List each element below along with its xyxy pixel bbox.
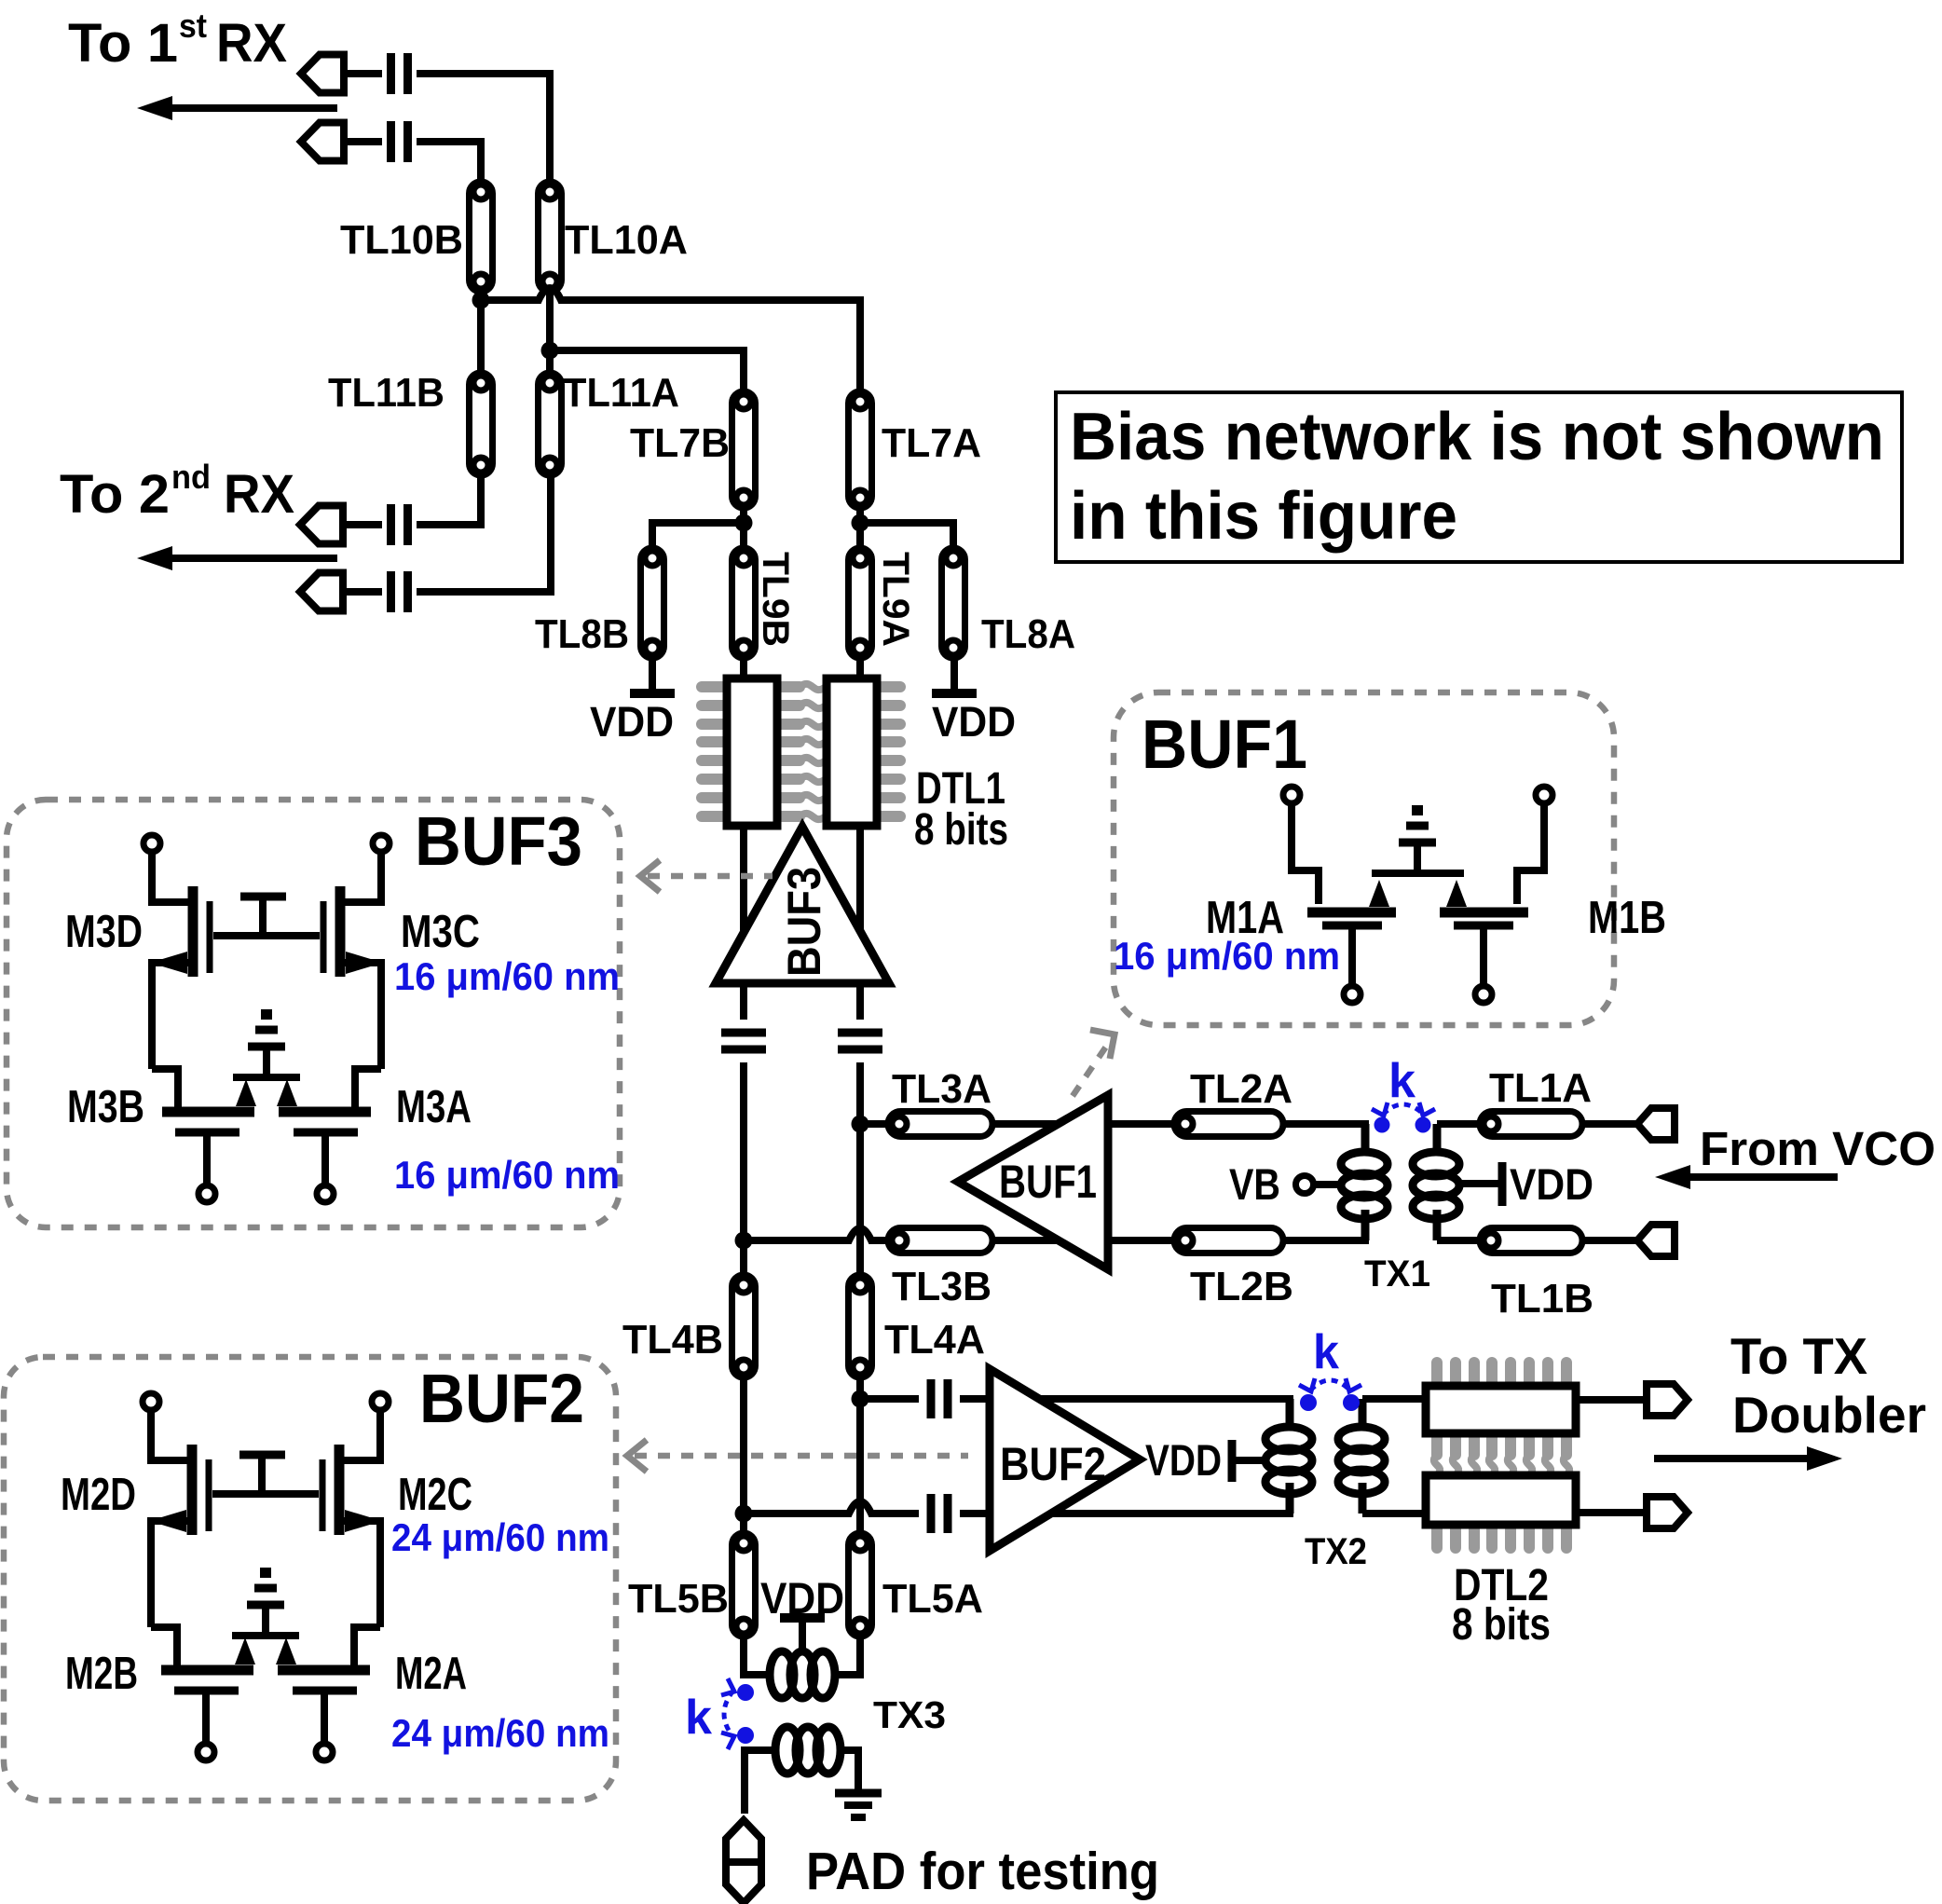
- svg-text:BUF2: BUF2: [1000, 1438, 1106, 1490]
- M1B gate: [1454, 922, 1513, 930]
- transformer TX1 left winding: [1341, 1124, 1388, 1240]
- svg-text:VDD: VDD: [1145, 1435, 1222, 1485]
- wire pad4 to cap4: [343, 588, 382, 596]
- svg-text:TL8B: TL8B: [535, 611, 629, 657]
- M1A bulk arrow: [1369, 880, 1389, 907]
- transistor right: gate: [320, 1459, 326, 1531]
- svg-text:TX1: TX1: [1364, 1253, 1430, 1294]
- transistor M top-left terminal circle: [143, 1393, 159, 1410]
- wire node to TL8A: [860, 523, 953, 548]
- coupling arc TX1: [1372, 1103, 1435, 1116]
- gate bias T symbol: [239, 1455, 285, 1494]
- DTL2 bottom line bar: [1426, 1475, 1576, 1525]
- svg-text:RX: RX: [224, 464, 294, 525]
- dashed pointer arrow BUF2 pointer: [627, 1440, 968, 1472]
- coupling dots TX1: [1374, 1117, 1390, 1133]
- svg-text:TL5B: TL5B: [628, 1576, 729, 1622]
- transistor left: channel: [187, 1445, 198, 1535]
- svg-text:TL2B: TL2B: [1190, 1264, 1293, 1309]
- M1A gate: [1322, 922, 1382, 930]
- transistor right: channel: [335, 1445, 345, 1535]
- wire right column to TL3A node: [856, 1062, 864, 1275]
- label To 1st RX: [68, 7, 287, 74]
- pad 1st RX lower: [301, 123, 344, 161]
- transmission line TL11B: [470, 373, 493, 475]
- wire TL4B bottom to TL5B: [740, 1377, 747, 1533]
- capacitor 2nd RX lower coupling: [391, 571, 408, 612]
- transistor NMOS right channel: [278, 1665, 370, 1676]
- M1B bulk arrow: [1446, 880, 1467, 907]
- bias tap symbol BUF1 pair: [1399, 805, 1436, 873]
- svg-text:TL11B: TL11B: [328, 370, 444, 416]
- wire DTL1 left to BUF3: [740, 826, 747, 937]
- inset box BUF3: [7, 800, 620, 1227]
- svg-text:nd: nd: [171, 458, 211, 496]
- transistor NMOS left channel: [162, 1107, 254, 1117]
- svg-text:To 1: To 1: [68, 13, 178, 74]
- transistor right: gate: [321, 901, 327, 973]
- wire TL10A bottom to junction: [546, 292, 554, 350]
- transistor M top-right terminal circle: [373, 835, 390, 852]
- wire cap2 to TL10B: [417, 142, 481, 183]
- svg-text:VDD: VDD: [1510, 1159, 1593, 1209]
- DTL2 top line bar: [1426, 1386, 1576, 1433]
- arrow to TX doubler: [1654, 1446, 1842, 1471]
- svg-text:PAD for testing: PAD for testing: [806, 1842, 1159, 1901]
- svg-text:BUF3: BUF3: [778, 867, 830, 977]
- wire BUF3 right output: [856, 983, 864, 1020]
- svg-text:TL1A: TL1A: [1489, 1065, 1592, 1111]
- M1B gate stem and terminal: [1480, 929, 1487, 986]
- NMOS right gate stem and terminal: [321, 1136, 329, 1185]
- transistor left: gate: [207, 901, 213, 973]
- wire cap4 to TL11A: [417, 475, 551, 592]
- transmission line TL7B: [732, 391, 756, 508]
- svg-text:M2B: M2B: [65, 1649, 138, 1699]
- NMOS left drain jog: [151, 1627, 177, 1666]
- wire node to lower cap with hop over right column: [744, 1501, 919, 1514]
- NMOS left gate stem and terminal: [202, 1694, 210, 1744]
- transistor NMOS left channel: [161, 1665, 253, 1676]
- label To 2nd RX: [60, 458, 294, 525]
- arrow from VCO: [1655, 1165, 1838, 1189]
- junction BUF2 upper input node: [852, 1390, 869, 1408]
- transmission line TL11A: [539, 373, 562, 475]
- junction BUF2 lower input node: [735, 1505, 753, 1523]
- coupling arc TX3: [721, 1678, 734, 1749]
- pad 2nd RX lower: [300, 573, 343, 611]
- NMOS left bulk arrow: [236, 1079, 256, 1106]
- transmission line TL5B: [732, 1533, 756, 1637]
- capacitor 1st RX lower coupling: [391, 121, 408, 162]
- wire left column to TL3B node: [740, 1062, 747, 1275]
- transmission line TL9B: [732, 548, 756, 658]
- pad 1st RX upper: [301, 55, 344, 93]
- svg-text:Doubler: Doubler: [1732, 1386, 1926, 1444]
- wire TL5B elbow: [744, 1637, 770, 1675]
- svg-text:k: k: [685, 1691, 712, 1745]
- svg-text:TL2A: TL2A: [1190, 1066, 1292, 1112]
- gate bias T symbol: [240, 897, 286, 936]
- svg-text:Bias network is not shown: Bias network is not shown: [1070, 400, 1884, 474]
- wire TX1 to TL1A: [1437, 1120, 1480, 1128]
- wire junction to TL11A: [546, 350, 554, 373]
- wire TL3B to BUF1: [992, 1237, 1061, 1244]
- gate interconnect wire: [213, 932, 320, 939]
- wire BUF1 to TL2A: [1108, 1120, 1174, 1128]
- wire junction to TL7A with hop over TL10A column: [481, 288, 860, 391]
- wire TL2A to TX1: [1283, 1124, 1365, 1155]
- capacitor BUF2 lower coupling: [931, 1494, 948, 1533]
- M1A drain lead: [1292, 803, 1319, 904]
- svg-text:TL4A: TL4A: [884, 1317, 985, 1363]
- junction TL10B-TL11B-TL7A node: [472, 292, 490, 309]
- transistor NMOS right channel: [279, 1107, 371, 1117]
- NMOS left drain jog: [152, 1069, 178, 1108]
- transmission line TL8A: [942, 548, 965, 658]
- M1A/M1B source mid bar: [1372, 870, 1464, 877]
- M1A top terminal circle: [1283, 787, 1300, 803]
- wire DTL2 top to pad: [1576, 1396, 1647, 1404]
- M1B top terminal circle: [1536, 787, 1552, 803]
- junction TL7B-TL9B-TL8B node: [735, 514, 753, 532]
- wire node to TL8B: [652, 523, 744, 548]
- transistor left: channel: [188, 886, 198, 977]
- svg-text:TL4B: TL4B: [622, 1317, 723, 1363]
- NMOS left gate stem and terminal: [203, 1136, 211, 1185]
- coupling arc TX2: [1299, 1378, 1361, 1391]
- inset box BUF2: [4, 1357, 616, 1801]
- wire TL7B bottom to node: [740, 508, 747, 523]
- svg-text:TL9A: TL9A: [875, 552, 916, 647]
- terminal VB circle: [1296, 1176, 1314, 1194]
- svg-text:16 μm/60 nm: 16 μm/60 nm: [1114, 934, 1340, 978]
- svg-text:BUF3: BUF3: [415, 802, 582, 880]
- wire BUF2 to TX2 top: [1037, 1399, 1290, 1430]
- arrow to 2nd RX: [137, 546, 337, 570]
- NMOS right bulk arrow: [277, 1079, 297, 1106]
- pad TX doubler output lower: [1647, 1497, 1688, 1528]
- wire node to TL3B with hop over right column: [744, 1228, 888, 1240]
- svg-text:k: k: [1313, 1325, 1339, 1379]
- wire TX1 right tap to VDD: [1459, 1180, 1498, 1187]
- transmission line TL8B: [641, 548, 664, 658]
- dashed pointer arrow BUF1: [1073, 1030, 1115, 1096]
- transistor M top-right terminal circle: [372, 1393, 389, 1410]
- svg-text:st: st: [179, 7, 207, 45]
- svg-text:VDD: VDD: [932, 698, 1016, 746]
- transistor NMOS right gate: [293, 1687, 357, 1695]
- svg-text:M3C: M3C: [401, 907, 480, 957]
- transmission line TL4B: [732, 1275, 756, 1377]
- wire TL3A to BUF1: [992, 1120, 1060, 1128]
- gate interconnect wire: [212, 1490, 319, 1498]
- wire VDD bar to TX2 tap: [1236, 1457, 1265, 1464]
- wire BUF3 left output: [740, 983, 747, 1020]
- transformer TX2 left winding: [1265, 1399, 1312, 1514]
- VDD supply bar below TL8A: [932, 658, 977, 693]
- NMOS left bulk arrow: [235, 1637, 255, 1664]
- svg-text:To TX: To TX: [1730, 1327, 1867, 1385]
- pad VCO input upper: [1637, 1108, 1675, 1140]
- transformer TX1 right winding: [1413, 1124, 1459, 1240]
- wire TL4A bottom to node: [856, 1377, 864, 1533]
- svg-text:M2D: M2D: [61, 1470, 136, 1520]
- svg-text:16 μm/60 nm: 16 μm/60 nm: [394, 954, 620, 998]
- wire TX3 secondary to ground: [841, 1750, 858, 1789]
- svg-text:TL11A: TL11A: [563, 370, 679, 416]
- VDD supply bar below TL8B: [630, 658, 675, 693]
- pad for testing symbol: [726, 1820, 761, 1903]
- transformer TX3 secondary winding: [775, 1727, 841, 1774]
- DTL1 digitally tuned line - gray switch fingers: [702, 684, 900, 819]
- wire TL2B to TX1: [1283, 1210, 1365, 1240]
- wire node to TL9A: [856, 523, 864, 548]
- svg-text:k: k: [1388, 1054, 1415, 1108]
- transmission line TL3B: [888, 1228, 992, 1253]
- bias tap symbol NMOS pair: [247, 1568, 284, 1636]
- NMOS right bulk arrow: [276, 1637, 296, 1664]
- wire TL9B to DTL1 left: [740, 658, 747, 678]
- svg-text:TL1B: TL1B: [1491, 1276, 1593, 1322]
- wire DTL2 bottom to pad: [1576, 1509, 1647, 1516]
- wire junction to TL7B: [550, 350, 744, 391]
- transmission line TL10B: [470, 182, 493, 292]
- arrow to 1st RX: [137, 96, 337, 120]
- wire node to upper cap: [860, 1395, 919, 1403]
- svg-text:M3A: M3A: [396, 1082, 472, 1132]
- svg-text:BUF1: BUF1: [1142, 705, 1307, 783]
- DTL2 digitally tuned line - gray switch fingers: [1434, 1363, 1569, 1548]
- transmission line TL10A: [539, 182, 562, 292]
- bias tap symbol NMOS pair: [248, 1009, 285, 1077]
- transistor left: source lead with arrow: [152, 963, 190, 1069]
- transmission line TL5A: [849, 1533, 872, 1637]
- pad 2nd RX upper: [300, 506, 343, 544]
- transmission line TL2B: [1174, 1228, 1283, 1253]
- svg-text:16 μm/60 nm: 16 μm/60 nm: [394, 1153, 620, 1197]
- transistor left: leads: [152, 852, 190, 902]
- transmission line TL7A: [849, 391, 872, 508]
- svg-text:BUF1: BUF1: [999, 1156, 1097, 1208]
- inset box BUF1: [1114, 692, 1614, 1025]
- junction TL3A node: [852, 1116, 869, 1133]
- capacitor BUF2 upper coupling: [931, 1379, 948, 1418]
- note box bias network: [1056, 392, 1902, 562]
- svg-text:RX: RX: [216, 13, 287, 74]
- transmission line TL1A: [1480, 1112, 1582, 1137]
- transistor left: leads: [151, 1410, 189, 1460]
- svg-text:TL9B: TL9B: [755, 552, 796, 647]
- wire pad3 to cap3: [343, 521, 382, 528]
- transistor right: leads: [342, 1410, 380, 1460]
- wire TX1 to TL1B: [1437, 1237, 1480, 1244]
- svg-text:TL10A: TL10A: [565, 217, 688, 263]
- svg-text:M2C: M2C: [398, 1470, 472, 1520]
- wire pad1 to cap1: [344, 70, 382, 77]
- svg-text:TL7B: TL7B: [630, 420, 730, 466]
- wire TL9A to DTL1 right: [856, 658, 864, 678]
- wire node to TL9B: [740, 523, 747, 548]
- NMOS right drain jog: [354, 1627, 380, 1666]
- wire cap1 to TL10A: [417, 74, 550, 183]
- transformer TX3 primary winding: [770, 1651, 835, 1698]
- svg-text:TL5A: TL5A: [882, 1576, 983, 1622]
- NMOS source mid bar: [232, 1632, 299, 1639]
- wire DTL1 right to BUF3: [856, 826, 864, 935]
- pad VCO input lower: [1637, 1225, 1675, 1256]
- wire TL10B bottom to junction: [477, 292, 485, 300]
- wire TX3 secondary to pad: [745, 1750, 775, 1814]
- M1B drain lead: [1517, 803, 1544, 904]
- transistor right: leads: [343, 852, 381, 902]
- transmission line TL4A: [849, 1275, 872, 1377]
- VDD bar TX2: [1228, 1440, 1237, 1482]
- svg-text:From VCO: From VCO: [1700, 1122, 1935, 1175]
- VDD bar TX1: [1498, 1162, 1507, 1206]
- transistor left: gate: [206, 1459, 212, 1531]
- pad TX doubler output upper: [1647, 1384, 1688, 1416]
- wire BUF2 to TX2 bottom: [1049, 1483, 1290, 1514]
- ground TX3 secondary: [835, 1793, 882, 1817]
- svg-text:24 μm/60 nm: 24 μm/60 nm: [391, 1515, 609, 1559]
- junction TL7A-TL9A-TL8A node: [852, 514, 869, 532]
- svg-text:M3B: M3B: [67, 1082, 144, 1132]
- wire TX2 to DTL2 top: [1362, 1395, 1426, 1403]
- transistor right: source lead with arrow: [343, 963, 381, 1069]
- transistor right: source lead with arrow: [342, 1521, 380, 1627]
- M1A gate stem and terminal: [1348, 929, 1356, 986]
- wire junction to TL11B: [477, 300, 485, 373]
- wire node to TL3A: [860, 1120, 888, 1128]
- wire cap3 to TL11B: [417, 475, 481, 525]
- svg-text:TL3A: TL3A: [892, 1066, 992, 1112]
- svg-text:in this figure: in this figure: [1070, 479, 1457, 554]
- NMOS right drain jog: [355, 1069, 381, 1108]
- wire TL7A bottom to node: [856, 508, 864, 523]
- transistor NMOS left gate: [174, 1687, 239, 1695]
- buffer BUF3 triangle: [716, 827, 889, 983]
- capacitor 2nd RX upper coupling: [391, 504, 408, 545]
- svg-text:TX2: TX2: [1305, 1531, 1367, 1572]
- capacitor BUF3 right output coupling: [838, 1033, 882, 1049]
- wire pad2 to cap2: [344, 138, 382, 145]
- DTL1 left line bar: [727, 678, 777, 826]
- svg-text:VDD: VDD: [590, 698, 674, 746]
- svg-text:TL8A: TL8A: [981, 611, 1075, 657]
- NMOS source mid bar: [233, 1074, 300, 1081]
- VDD supply bar TX3 center tap: [780, 1618, 825, 1651]
- transistor NMOS right gate: [294, 1129, 358, 1137]
- svg-text:BUF2: BUF2: [419, 1360, 584, 1437]
- wire TL1B to pad: [1582, 1237, 1637, 1244]
- wire TX1 center tap to VB: [1313, 1181, 1342, 1188]
- coupling dots TX3: [737, 1684, 754, 1701]
- transistor M top-left terminal circle: [144, 835, 160, 852]
- transmission line TL9A: [849, 548, 872, 658]
- junction TL10A-TL11A-TL7B node: [541, 342, 559, 360]
- svg-text:M3D: M3D: [65, 907, 143, 957]
- svg-text:VB: VB: [1229, 1159, 1280, 1209]
- wire TL1A to pad: [1582, 1120, 1637, 1128]
- transmission line TL2A: [1174, 1112, 1283, 1137]
- svg-text:24 μm/60 nm: 24 μm/60 nm: [391, 1711, 609, 1755]
- buffer BUF2 triangle: [990, 1369, 1140, 1551]
- transistor right: channel: [335, 886, 346, 977]
- transformer TX2 right winding: [1338, 1399, 1385, 1514]
- buffer BUF1 triangle: [958, 1095, 1108, 1269]
- capacitor BUF3 left output coupling: [721, 1033, 766, 1049]
- svg-text:M1B: M1B: [1588, 893, 1666, 943]
- wire lower cap to BUF2: [960, 1510, 990, 1517]
- coupling dots TX2: [1300, 1394, 1317, 1411]
- svg-text:TL3B: TL3B: [892, 1264, 992, 1309]
- svg-text:TL7A: TL7A: [882, 420, 981, 466]
- M1B channel: [1440, 908, 1528, 918]
- transmission line TL1B: [1480, 1228, 1582, 1253]
- svg-text:TX3: TX3: [873, 1693, 946, 1736]
- dashed pointer arrow BUF3 pointer: [640, 860, 773, 892]
- wire TX2 to DTL2 bottom: [1362, 1510, 1426, 1517]
- DTL1 right line bar: [827, 678, 877, 826]
- wire upper cap to BUF2: [960, 1395, 990, 1403]
- NMOS right gate stem and terminal: [321, 1694, 328, 1744]
- M1A channel: [1307, 908, 1396, 918]
- transmission line TL3A: [888, 1112, 992, 1137]
- svg-text:8 bits: 8 bits: [914, 805, 1008, 855]
- wire TL5A elbow: [835, 1637, 860, 1675]
- svg-text:TL10B: TL10B: [340, 217, 463, 263]
- junction TL3B node: [735, 1232, 753, 1250]
- wire BUF1 to TL2B: [1108, 1237, 1174, 1244]
- svg-text:To 2: To 2: [60, 464, 170, 525]
- svg-text:M2A: M2A: [395, 1649, 467, 1699]
- svg-text:8 bits: 8 bits: [1452, 1600, 1551, 1650]
- transistor left: source lead with arrow: [151, 1521, 189, 1627]
- transistor NMOS left gate: [175, 1129, 239, 1137]
- capacitor 1st RX upper coupling: [391, 53, 408, 94]
